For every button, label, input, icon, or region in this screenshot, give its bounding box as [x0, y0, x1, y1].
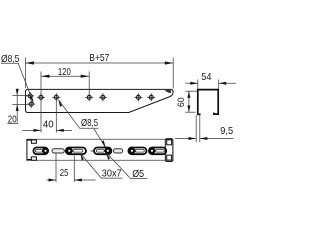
svg-text:60: 60	[176, 97, 186, 107]
pill 2	[90, 150, 93, 152]
rail clip top-right	[167, 140, 172, 145]
svg-text:54: 54	[201, 72, 211, 83]
dim 54	[185, 72, 236, 89]
svg-text:B+57: B+57	[89, 53, 109, 64]
svg-text:9,5: 9,5	[220, 126, 233, 137]
dim B+57	[25, 53, 173, 89]
wall hole bottom	[27, 100, 35, 108]
rail clip bottom-right	[167, 155, 172, 160]
rail clip top-left	[31, 140, 36, 143]
wall hole top	[26, 92, 34, 100]
arm hole 3	[85, 93, 93, 101]
rail clip bottom-left	[31, 157, 36, 160]
bracket plate top view outline	[26, 89, 174, 112]
arm hole 5	[134, 93, 142, 101]
hanging plate lines	[195, 115, 197, 142]
dim 9,5	[175, 126, 234, 140]
rail left end cap flanges	[27, 139, 32, 141]
slot 3	[94, 148, 111, 155]
dim 25	[47, 154, 96, 183]
arm hole 1	[37, 93, 45, 101]
svg-text:40: 40	[43, 119, 54, 130]
side view C-channel section	[196, 90, 218, 143]
slot 5	[149, 148, 166, 155]
arm hole 2	[52, 93, 60, 101]
label 30x7	[80, 153, 122, 180]
arm hole 6	[147, 93, 155, 101]
label diam 5	[106, 153, 147, 180]
arm hole 4	[99, 93, 107, 101]
svg-text:120: 120	[58, 67, 71, 78]
dim 60	[176, 91, 197, 112]
slot 1	[33, 148, 48, 155]
dim 120	[41, 67, 89, 132]
slot 4	[128, 148, 146, 155]
rail front view body	[27, 139, 173, 161]
label diam 8,5 bottom	[58, 100, 105, 148]
pill 1	[52, 149, 64, 153]
dim 40	[22, 100, 72, 133]
svg-text:25: 25	[60, 168, 69, 179]
svg-text:Ø8,5: Ø8,5	[81, 118, 98, 129]
dim 20	[7, 89, 31, 126]
slot 2	[66, 148, 86, 155]
pill 3	[114, 149, 123, 153]
label diam 8,5 top-left	[1, 54, 34, 104]
corner fillet shading	[165, 90, 171, 93]
rail end-cap box right	[165, 139, 173, 162]
